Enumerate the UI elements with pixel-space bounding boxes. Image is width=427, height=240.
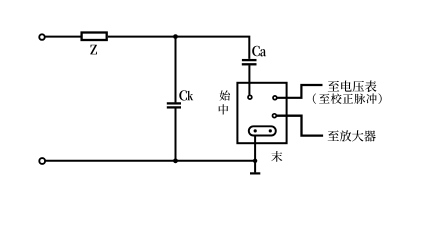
label to amplifier 至放大器 bbox=[328, 130, 376, 141]
tap label 始 bbox=[220, 90, 230, 100]
capacitor Ck top plate bbox=[167, 102, 181, 104]
wire top horizontal input to resistor bbox=[45, 36, 81, 38]
capacitor Ca top plate bbox=[242, 59, 257, 61]
label (to calibration pulse) （至校正脉冲） bbox=[313, 93, 382, 104]
tap terminal circle C to amplifier bbox=[273, 114, 277, 118]
node junction dot top rail bbox=[173, 34, 178, 39]
tap label 中 bbox=[219, 104, 228, 114]
wire circle B to voltmeter label bbox=[277, 85, 323, 98]
tube right contact dot bbox=[269, 129, 272, 132]
resistor Z bbox=[82, 33, 107, 41]
label to voltmeter 至电压表 bbox=[328, 81, 377, 93]
tube left contact dot bbox=[254, 129, 257, 132]
node junction dot bottom rail to ground bbox=[253, 159, 257, 163]
tap label 末 bbox=[271, 151, 282, 162]
capacitor Ck bottom plate bbox=[167, 106, 181, 108]
label Z bbox=[90, 45, 97, 55]
wire circle C to amplifier label bbox=[276, 116, 323, 136]
wire Ca to tap circle bbox=[248, 65, 250, 95]
ground bar bbox=[250, 172, 260, 174]
label Ck bbox=[179, 90, 193, 100]
terminal input bottom-left bbox=[39, 158, 45, 164]
terminal input top-left bbox=[39, 34, 45, 40]
wire tube to ground bbox=[254, 136, 256, 173]
capacitor Ca bottom plate bbox=[242, 63, 257, 65]
divider box bbox=[237, 83, 286, 143]
wire Ck to bottom rail bbox=[175, 109, 177, 161]
label Ca bbox=[252, 46, 266, 57]
tap terminal circle A (始) bbox=[248, 95, 252, 99]
node junction dot bottom rail at Ck bbox=[173, 158, 178, 163]
wire bottom rail bbox=[45, 160, 255, 162]
wire node down to capacitor Ck bbox=[175, 37, 177, 103]
tube oval bbox=[249, 126, 276, 135]
tap terminal circle B to voltmeter bbox=[273, 96, 277, 100]
wire from resistor to Ca corner bbox=[108, 37, 249, 59]
